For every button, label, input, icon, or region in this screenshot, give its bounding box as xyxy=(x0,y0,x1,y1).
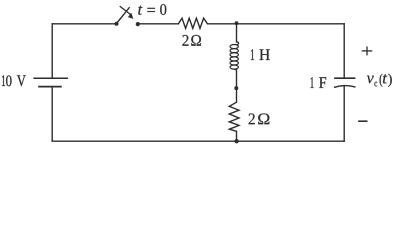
minus sign xyxy=(358,120,367,122)
battery V1 top plate xyxy=(33,77,68,79)
label 10 V xyxy=(2,75,26,86)
wire top left segment xyxy=(52,23,116,25)
wire middle branch lower xyxy=(236,131,238,141)
label 2 ohm bottom xyxy=(249,113,270,124)
plus sign xyxy=(362,46,373,55)
capacitor C1 curved plate xyxy=(334,86,356,88)
label 1 H xyxy=(251,49,270,60)
wire top middle segment xyxy=(138,23,179,25)
wire left bus lower xyxy=(51,87,53,142)
wire bottom xyxy=(52,140,344,142)
node B junction dot middle xyxy=(234,86,238,90)
wire middle branch upper xyxy=(236,24,238,42)
wire right bus lower xyxy=(343,86,345,141)
node A junction dot top xyxy=(235,21,239,25)
switch S1 closing at t=0 xyxy=(115,6,140,26)
battery V1 bottom plate xyxy=(38,86,62,88)
wire middle branch between inductor and resistor xyxy=(236,70,238,102)
wire left bus upper xyxy=(51,24,53,79)
node C junction dot bottom xyxy=(234,139,238,143)
capacitor C1 top plate xyxy=(334,77,355,79)
wire right bus upper xyxy=(343,24,345,78)
label vc(t) xyxy=(367,74,392,87)
resistor R2 2 ohm vertical xyxy=(229,102,239,131)
wire top right segment xyxy=(208,23,345,25)
label t = 0 xyxy=(138,4,166,15)
label 1 F xyxy=(311,77,327,88)
resistor R1 2 ohm horizontal xyxy=(178,18,207,28)
inductor L1 1H coil xyxy=(230,42,239,70)
label 2 ohm top xyxy=(182,35,201,46)
